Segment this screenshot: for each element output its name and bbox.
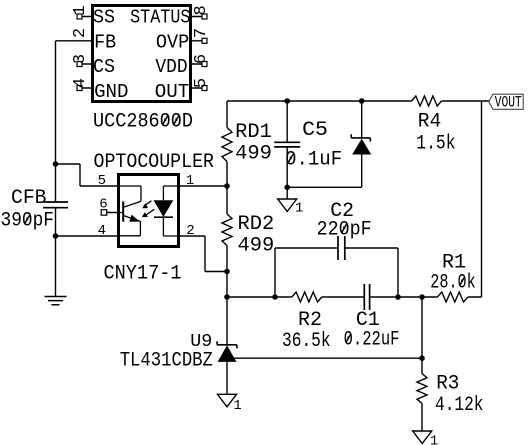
svg-text:4: 4 xyxy=(98,223,106,239)
svg-text:U9: U9 xyxy=(190,331,212,352)
svg-text:VDD: VDD xyxy=(155,56,187,78)
svg-text:3: 3 xyxy=(71,54,90,64)
svg-text:OVP: OVP xyxy=(156,31,189,53)
svg-text:R2: R2 xyxy=(298,309,322,332)
svg-text:RD2: RD2 xyxy=(238,213,275,236)
svg-text:5: 5 xyxy=(192,78,211,88)
svg-text:4: 4 xyxy=(71,78,90,88)
svg-text:0.1uF: 0.1uF xyxy=(285,149,342,172)
svg-text:5: 5 xyxy=(98,173,106,189)
svg-text:R3: R3 xyxy=(436,372,459,395)
svg-text:FB: FB xyxy=(94,31,116,53)
svg-text:6: 6 xyxy=(99,196,107,212)
svg-text:2: 2 xyxy=(71,28,90,38)
svg-text:SS: SS xyxy=(93,7,115,29)
svg-text:1: 1 xyxy=(234,399,242,414)
svg-text:STATUS: STATUS xyxy=(130,7,190,29)
svg-text:GND: GND xyxy=(94,81,128,103)
svg-text:499: 499 xyxy=(235,143,272,166)
svg-text:RD1: RD1 xyxy=(235,121,272,144)
svg-text:7: 7 xyxy=(192,28,211,38)
svg-text:499: 499 xyxy=(238,235,275,258)
svg-text:CNY17-1: CNY17-1 xyxy=(104,262,182,285)
svg-text:TL431CDBZ: TL431CDBZ xyxy=(120,350,213,373)
svg-text:1: 1 xyxy=(186,173,194,189)
svg-text:1: 1 xyxy=(295,201,303,216)
svg-text:8: 8 xyxy=(192,5,211,15)
svg-text:36.5k: 36.5k xyxy=(282,330,331,353)
svg-text:6: 6 xyxy=(192,54,211,64)
svg-text:1: 1 xyxy=(71,5,90,15)
svg-text:0.22uF: 0.22uF xyxy=(344,329,400,352)
svg-text:OUT: OUT xyxy=(155,81,190,103)
svg-text:OPTOCOUPLER: OPTOCOUPLER xyxy=(94,151,215,174)
svg-text:C5: C5 xyxy=(302,119,328,142)
svg-text:R4: R4 xyxy=(418,111,442,134)
svg-text:390pF: 390pF xyxy=(1,210,55,233)
svg-text:28.0k: 28.0k xyxy=(430,272,475,295)
svg-text:4.12k: 4.12k xyxy=(435,394,484,417)
svg-text:2: 2 xyxy=(186,223,194,239)
svg-text:UCC28600D: UCC28600D xyxy=(93,110,193,133)
svg-text:CFB: CFB xyxy=(11,187,47,210)
svg-text:220pF: 220pF xyxy=(317,219,372,242)
svg-text:1.5k: 1.5k xyxy=(416,133,455,156)
svg-text:1: 1 xyxy=(430,435,438,445)
svg-text:CS: CS xyxy=(93,56,115,78)
svg-text:VOUT: VOUT xyxy=(495,94,522,112)
